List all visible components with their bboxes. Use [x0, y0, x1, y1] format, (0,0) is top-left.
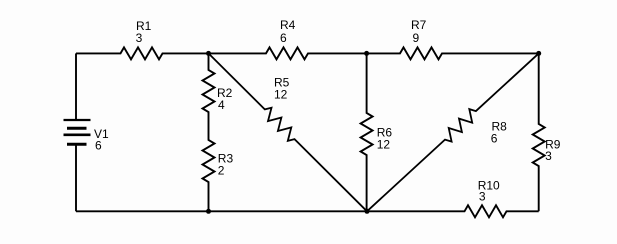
svg-text:4: 4 [218, 98, 225, 112]
svg-text:12: 12 [377, 137, 391, 151]
svg-text:6: 6 [95, 139, 102, 153]
svg-text:3: 3 [545, 149, 552, 163]
svg-text:12: 12 [274, 87, 288, 101]
svg-text:3: 3 [136, 31, 143, 45]
svg-text:6: 6 [280, 31, 287, 45]
svg-text:2: 2 [218, 164, 225, 178]
svg-text:9: 9 [413, 31, 420, 45]
svg-text:6: 6 [491, 132, 498, 146]
svg-text:3: 3 [479, 189, 486, 203]
